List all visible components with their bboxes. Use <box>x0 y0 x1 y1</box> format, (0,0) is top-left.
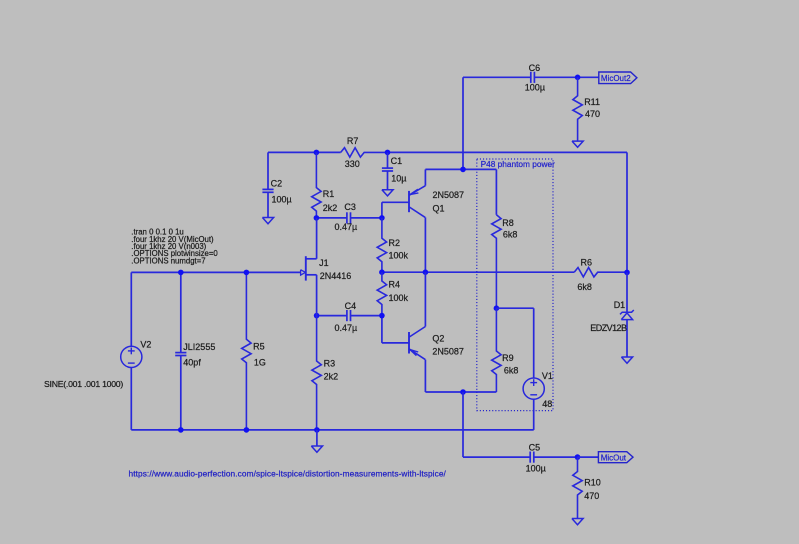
wire R7 row right <box>388 151 628 153</box>
label C6 <box>529 63 541 73</box>
resistor R11 <box>573 77 582 141</box>
junction rail/R5 <box>244 427 250 433</box>
value 470 R11 <box>585 109 600 119</box>
wire bottom rail <box>131 429 533 431</box>
wire R8 drop <box>495 169 497 214</box>
wire MicOut2 row left of C6 <box>463 76 531 78</box>
junction rail/JLI2555 <box>178 427 184 433</box>
svg-text:C5: C5 <box>529 442 541 452</box>
diode D1 zener <box>620 272 634 357</box>
value 470 R10 <box>584 491 599 501</box>
capacitor C3 <box>347 212 382 223</box>
junction gate row/R5 <box>244 270 250 276</box>
ground at bottom rail <box>311 430 322 452</box>
capacitor C4 <box>347 310 382 321</box>
svg-text:C4: C4 <box>345 301 357 311</box>
svg-text:J1: J1 <box>319 258 329 268</box>
value 10µ C1 <box>391 174 406 184</box>
resistor R6 <box>574 268 627 277</box>
svg-text:JLI2555: JLI2555 <box>183 342 215 352</box>
wire C3 row left <box>316 217 347 219</box>
svg-text:P48 phantom power: P48 phantom power <box>481 159 555 169</box>
svg-text:2N4416: 2N4416 <box>320 271 352 281</box>
net label MicOut2 <box>601 74 631 83</box>
svg-text:10µ: 10µ <box>391 174 406 184</box>
label R7 <box>347 136 359 146</box>
svg-text:C2: C2 <box>271 178 283 188</box>
svg-text:R8: R8 <box>502 218 514 228</box>
ground below R10 <box>572 519 583 525</box>
svg-text:https://www.audio-perfection.c: https://www.audio-perfection.com/spice-l… <box>129 469 447 479</box>
svg-text:100k: 100k <box>389 293 409 303</box>
capacitor C1 <box>382 152 393 189</box>
label R8 <box>502 218 514 228</box>
value 2k2 R1 <box>323 203 338 213</box>
wire MicOut row left <box>463 456 530 458</box>
wire V1 bottom <box>533 399 535 430</box>
junction C5/R10 <box>575 454 581 460</box>
capacitor C6 <box>531 72 578 83</box>
svg-text:0.47µ: 0.47µ <box>335 222 358 232</box>
spice directive text <box>131 228 218 266</box>
resistor R1 <box>312 152 321 218</box>
capacitor JLI2555 <box>175 272 186 430</box>
wire vertical x627 <box>626 152 628 272</box>
wire C4 row left <box>317 315 347 317</box>
value 6k8 R9 <box>504 365 519 375</box>
svg-text:R5: R5 <box>253 341 265 351</box>
svg-text:100µ: 100µ <box>526 464 546 474</box>
value 6k8 R6 <box>577 282 592 292</box>
svg-text:Q1: Q1 <box>433 203 445 213</box>
transistor J1 <box>131 218 316 316</box>
junction midrow/D1 <box>624 270 630 276</box>
wire vertical x463 bottom <box>462 392 464 457</box>
svg-text:2N5087: 2N5087 <box>433 190 465 200</box>
svg-text:V1: V1 <box>542 371 553 381</box>
svg-text:R2: R2 <box>389 238 401 248</box>
transistor Q1 <box>382 169 426 272</box>
junction rail/R3/ground <box>314 427 320 433</box>
junction gate row/JLI2555 <box>178 270 184 276</box>
wire V2 top <box>130 272 132 346</box>
net label MicOut <box>601 454 627 463</box>
label 2N4416 J1 <box>320 271 352 281</box>
value 1G R5 <box>254 358 266 368</box>
capacitor C5 <box>530 452 577 463</box>
svg-text:MicOut: MicOut <box>601 454 627 463</box>
svg-text:40pf: 40pf <box>183 358 201 368</box>
value 100µ C5 <box>526 464 546 474</box>
value 40pf JLI2555 <box>183 358 201 368</box>
label C5 <box>529 442 541 452</box>
transistor Q2 <box>382 272 426 392</box>
wire C5 to MicOut flag <box>578 456 599 458</box>
ground below C1 <box>382 190 393 196</box>
svg-text:R10: R10 <box>584 477 601 487</box>
label R11 <box>584 97 600 107</box>
junction emitter row/x463 drop <box>460 389 466 395</box>
value 330 R7 <box>345 159 360 169</box>
capacitor C2 <box>262 152 273 217</box>
resistor R3 <box>312 316 321 430</box>
value 100µ C6 <box>525 83 545 93</box>
wire C6 to MicOut2 flag <box>578 76 599 78</box>
resistor R7 <box>341 148 388 157</box>
wire Q2 emitter row <box>425 391 496 393</box>
voltage source V1 <box>523 378 544 399</box>
label R5 <box>253 341 265 351</box>
svg-text:2k2: 2k2 <box>323 203 338 213</box>
svg-text:470: 470 <box>585 109 600 119</box>
value 100k R4 <box>389 293 409 303</box>
label C3 <box>344 202 356 212</box>
voltage source V2 <box>121 346 142 367</box>
label V1 <box>542 371 553 381</box>
comment URL <box>129 469 447 479</box>
value 0.47µ C4 <box>335 323 358 333</box>
svg-text:6k8: 6k8 <box>503 229 518 239</box>
label J1 <box>319 258 329 268</box>
label V2 <box>140 340 151 350</box>
label R2 <box>389 238 401 248</box>
junction C4row/R4/Q2base <box>379 313 385 319</box>
svg-text:EDZV12B: EDZV12B <box>590 323 627 333</box>
svg-text:330: 330 <box>345 159 360 169</box>
svg-text:R9: R9 <box>502 353 514 363</box>
svg-text:6k8: 6k8 <box>504 365 519 375</box>
junction midrow/Q1/Q2 <box>423 269 429 275</box>
label 2N5087 Q2 <box>432 346 464 356</box>
wire R7 row left <box>268 151 341 153</box>
wire vertical x463 top <box>462 77 464 169</box>
label Q2 <box>432 333 444 343</box>
junction C3row/R2/Q1base <box>379 215 385 221</box>
label C2 <box>271 178 283 188</box>
value 2k2 R3 <box>324 371 339 381</box>
ground below C2 <box>262 218 273 224</box>
svg-text:R6: R6 <box>581 257 593 267</box>
label 2N5087 Q1 <box>433 190 465 200</box>
resistor R9 <box>492 308 501 392</box>
svg-text:2k2: 2k2 <box>324 371 339 381</box>
label R1 <box>323 189 335 199</box>
resistor R4 <box>377 272 386 315</box>
label R3 <box>324 359 336 369</box>
svg-text:C3: C3 <box>344 202 356 212</box>
svg-text:2N5087: 2N5087 <box>432 346 464 356</box>
svg-text:100µ: 100µ <box>525 83 545 93</box>
svg-text:R11: R11 <box>584 97 600 107</box>
svg-text:100k: 100k <box>389 251 409 261</box>
junction R8/R9/V1 <box>494 305 500 311</box>
svg-text:R1: R1 <box>323 189 335 199</box>
wire V1 top <box>496 308 533 378</box>
ground below R11 <box>572 141 583 147</box>
svg-text:C1: C1 <box>391 156 403 166</box>
value SINE V2 <box>44 379 123 389</box>
wire mid row <box>382 271 574 273</box>
resistor R8 <box>492 215 501 308</box>
label C4 <box>345 301 357 311</box>
label R10 <box>584 477 601 487</box>
svg-text:48: 48 <box>542 399 552 409</box>
svg-text:D1: D1 <box>614 300 626 310</box>
resistor R10 <box>573 457 582 518</box>
value 0.47µ C3 <box>335 222 358 232</box>
label C1 <box>391 156 403 166</box>
junction emitter row/x463 <box>460 167 466 173</box>
svg-text:R7: R7 <box>347 136 359 146</box>
flag MicOut2 <box>599 72 637 84</box>
value 48 V1 <box>542 399 552 409</box>
label R6 <box>581 257 593 267</box>
svg-text:6k8: 6k8 <box>577 282 592 292</box>
svg-text:1G: 1G <box>254 358 266 368</box>
resistor R5 <box>242 272 251 430</box>
junction C4row/J1/R3 <box>314 313 320 319</box>
svg-text:Q2: Q2 <box>432 333 444 343</box>
svg-text:MicOut2: MicOut2 <box>601 74 631 83</box>
svg-text:R3: R3 <box>324 359 336 369</box>
ground below D1 <box>621 357 632 363</box>
junction C3row/R1/J1 <box>314 215 320 221</box>
value 6k8 R8 <box>503 229 518 239</box>
label Q1 <box>433 203 445 213</box>
svg-text:R4: R4 <box>389 280 401 290</box>
svg-text:SINE(.001 .001 1000): SINE(.001 .001 1000) <box>44 379 123 389</box>
svg-text:100µ: 100µ <box>272 194 292 204</box>
node label P48 phantom power <box>481 159 555 169</box>
junction R7row/R1 <box>314 150 320 156</box>
value EDZV12B D1 <box>590 323 627 333</box>
label D1 <box>614 300 626 310</box>
junction midrow/R2/R4 <box>379 269 385 275</box>
label JLI2555 <box>183 342 215 352</box>
resistor R2 <box>377 218 386 272</box>
node P48 phantom power box <box>477 159 553 411</box>
svg-text:.OPTIONS numdgt=7: .OPTIONS numdgt=7 <box>131 256 205 265</box>
value 100µ C2 <box>272 194 292 204</box>
junction R7row/C1 <box>385 150 391 156</box>
wire Q1 emitter row <box>425 168 496 170</box>
svg-text:470: 470 <box>584 491 599 501</box>
svg-text:V2: V2 <box>140 340 151 350</box>
label R9 <box>502 353 514 363</box>
label R4 <box>389 280 401 290</box>
wire V2 bottom <box>130 368 132 430</box>
junction C6/R11 <box>575 75 581 81</box>
flag MicOut <box>598 452 633 463</box>
value 100k R2 <box>389 251 409 261</box>
svg-text:C6: C6 <box>529 63 541 73</box>
svg-text:0.47µ: 0.47µ <box>335 323 358 333</box>
